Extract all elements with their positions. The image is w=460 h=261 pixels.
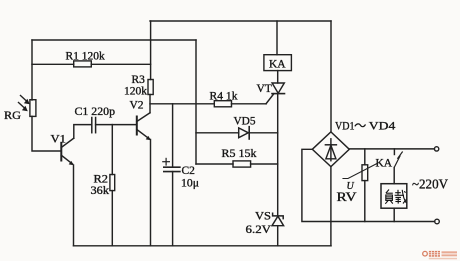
wire C2 to bottom rail <box>172 172 174 246</box>
svg-text:R5 15k: R5 15k <box>222 148 257 160</box>
wire rail B <box>32 39 196 41</box>
svg-text:RG: RG <box>4 110 21 122</box>
relay coil KA <box>264 55 292 71</box>
svg-text:VD4: VD4 <box>369 121 396 133</box>
svg-text:R2: R2 <box>94 174 109 186</box>
varistor RV wire bottom <box>364 181 366 222</box>
wire VD5 to VT cathode line <box>249 132 278 134</box>
wire VT cathode down <box>277 94 279 216</box>
wire contact to load <box>393 168 395 184</box>
wire V1 emitter down <box>73 165 75 246</box>
wire bottom rail <box>74 245 332 247</box>
resistor R2 <box>110 175 115 191</box>
wire R4 line <box>150 103 214 105</box>
wire R5 to VT cathode line <box>251 163 278 165</box>
svg-text:10μ: 10μ <box>181 178 199 190</box>
RG light arrow 1 <box>21 96 30 105</box>
wire R5 line left <box>196 163 233 165</box>
terminal bottom <box>435 219 440 224</box>
relay contact KA blade <box>394 152 402 168</box>
wire rail A down to bridge <box>330 21 332 132</box>
wire R1 to V2 collector node <box>91 63 150 65</box>
transistor V1 <box>61 138 74 165</box>
wire R4 to VT gate <box>232 103 267 105</box>
diode VD5 <box>239 127 250 139</box>
watermark logo <box>423 251 457 259</box>
bridge rectifier VD1-VD4 <box>312 132 349 167</box>
svg-text:VD5: VD5 <box>234 116 256 128</box>
svg-text:KA: KA <box>376 158 393 170</box>
wire bridge left vertex to mains bottom <box>302 149 435 221</box>
resistor R1 <box>74 61 92 67</box>
wire R2 to bottom rail <box>111 191 113 246</box>
wire V2 collector up to R3 <box>149 95 151 113</box>
capacitor C2 <box>164 167 180 171</box>
wire C2 branch <box>172 104 174 167</box>
terminal top <box>434 147 438 151</box>
wire RG to V1 base <box>32 116 60 151</box>
wire top rail A <box>150 20 331 22</box>
wire KA to VT <box>277 71 279 83</box>
svg-text:RV: RV <box>337 190 357 204</box>
resistor R5 <box>233 161 251 167</box>
wire V1 collector up <box>74 125 91 139</box>
thyristor VT <box>266 83 285 104</box>
varistor RV wire top <box>364 149 366 165</box>
wire VD5 line <box>196 132 239 134</box>
varistor RV diagonal <box>343 164 377 179</box>
svg-text:C1 220p: C1 220p <box>75 106 116 118</box>
svg-text:KA: KA <box>269 59 286 71</box>
resistor R3 <box>148 80 153 95</box>
wire VS to bottom rail <box>277 226 279 246</box>
svg-text:36k: 36k <box>91 185 110 197</box>
svg-text:R3: R3 <box>132 74 146 86</box>
svg-text:C2: C2 <box>182 165 196 177</box>
wire R2 branch down <box>111 125 113 175</box>
svg-text:VD1: VD1 <box>335 121 355 133</box>
svg-text:R1 120k: R1 120k <box>66 51 106 63</box>
varistor RV <box>362 165 368 181</box>
wire load to mains bottom <box>393 208 395 221</box>
wire bridge right vertex to mains top <box>349 148 434 150</box>
RG light arrow 2 <box>19 103 28 112</box>
relay coil KA wire from rail A <box>276 21 278 55</box>
capacitor C2 plus sign <box>163 158 170 165</box>
wire C1 to V2 base <box>96 124 137 126</box>
load box <box>381 184 407 209</box>
zener VS <box>272 213 284 226</box>
relay contact KA stub <box>393 149 395 155</box>
svg-text:~220V: ~220V <box>412 177 448 192</box>
wire bridge bottom vertex down <box>330 167 332 246</box>
capacitor C1 <box>92 118 96 133</box>
svg-text:VT: VT <box>257 83 272 95</box>
wire rail B down at x196 <box>195 40 197 164</box>
transistor V2 <box>137 113 151 140</box>
svg-text:V1: V1 <box>51 134 67 146</box>
svg-text:VS: VS <box>255 211 271 223</box>
wire V2 emitter down <box>150 140 152 246</box>
resistor R1 line <box>32 63 74 65</box>
wire left vertical upper <box>31 40 33 100</box>
svg-text:R4 1k: R4 1k <box>210 91 238 103</box>
photoresistor RG <box>30 100 36 117</box>
svg-text:V2: V2 <box>130 100 144 112</box>
load glyph fuzai <box>385 190 406 204</box>
wire R3 top to rail A <box>150 21 152 80</box>
resistor R4 <box>214 101 231 107</box>
svg-text:6.2V: 6.2V <box>246 224 272 236</box>
svg-text:120k: 120k <box>124 86 147 98</box>
